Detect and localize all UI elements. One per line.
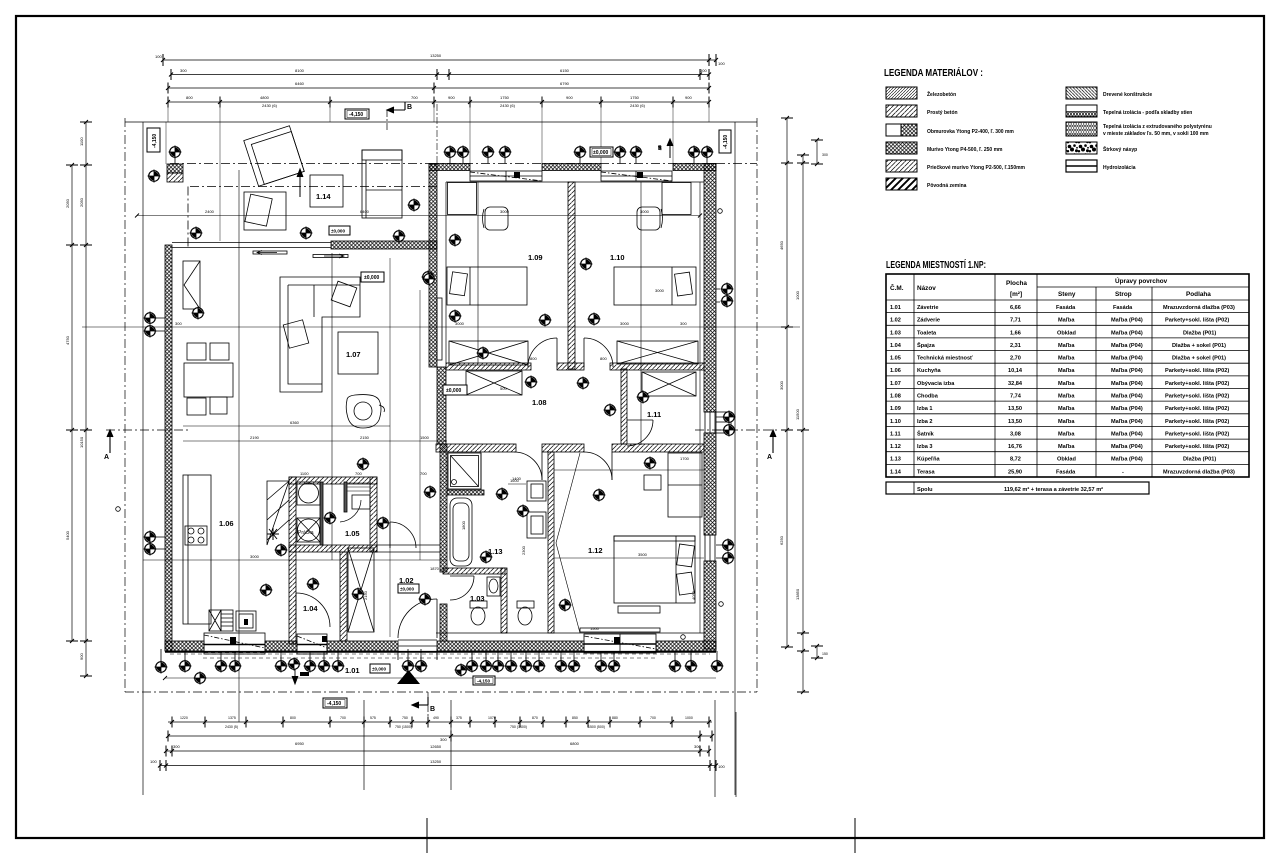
boiler symbol [267, 528, 279, 540]
svg-text:1.01: 1.01 [345, 666, 360, 675]
svg-text:700: 700 [340, 716, 346, 720]
terrace axis dashdot [190, 186, 437, 188]
svg-text:700: 700 [420, 471, 427, 476]
wall north seg3 [673, 164, 716, 171]
wall east seg1 [704, 164, 716, 413]
svg-text:300: 300 [175, 321, 182, 326]
small circle right [718, 209, 723, 214]
bottom chain line 2 [168, 735, 712, 737]
svg-text:900: 900 [448, 95, 455, 100]
svg-text:6,66: 6,66 [1010, 305, 1021, 311]
fold tick right [854, 818, 856, 853]
wall south seg2 [265, 641, 297, 651]
svg-text:Mrazuvzdorná dlažba (P03): Mrazuvzdorná dlažba (P03) [1163, 469, 1235, 475]
svg-text:Maľba (P04): Maľba (P04) [1111, 330, 1143, 336]
bed 1.10 [614, 267, 696, 305]
svg-text:Špajza: Špajza [917, 341, 936, 349]
svg-text:1.09: 1.09 [528, 253, 543, 262]
left chain line 1 [71, 165, 73, 641]
kitchen sink unit [209, 610, 221, 631]
swivel chair living [346, 395, 381, 428]
svg-text:700: 700 [650, 716, 656, 720]
svg-text:A: A [767, 454, 772, 461]
svg-text:850: 850 [572, 716, 578, 720]
svg-text:750 (1500): 750 (1500) [395, 725, 412, 729]
interior vertical x332 [331, 253, 333, 560]
markers rooms [422, 272, 435, 285]
south inner face line [436, 632, 704, 634]
window E2 [705, 412, 731, 433]
bedside 1.12 [644, 475, 661, 490]
svg-text:1.06: 1.06 [890, 368, 901, 374]
svg-text:Maľba: Maľba [1058, 431, 1075, 437]
interior vertical x239 [238, 170, 240, 722]
svg-text:-4,150: -4,150 [477, 679, 490, 684]
markers bath zone [423, 485, 436, 498]
svg-text:300: 300 [173, 744, 180, 749]
svg-text:LEGENDA MATERIÁLOV :: LEGENDA MATERIÁLOV : [884, 66, 983, 79]
svg-text:-4,150: -4,150 [723, 135, 729, 149]
svg-text:Maľba (P04): Maľba (P04) [1111, 394, 1143, 400]
svg-text:4650: 4650 [779, 240, 784, 250]
svg-text:3000: 3000 [655, 288, 665, 293]
svg-text:Strop: Strop [1115, 291, 1132, 298]
svg-text:15: 15 [657, 145, 662, 150]
svg-text:1870: 1870 [430, 566, 440, 571]
svg-text:-: - [1122, 469, 1124, 475]
svg-text:1.14: 1.14 [316, 192, 331, 201]
svg-text:1.14: 1.14 [890, 469, 902, 475]
bottom extension verticals [363, 700, 365, 790]
FURNITURE [183, 126, 702, 684]
right chain line 1 [786, 118, 788, 647]
left chain labels [65, 137, 84, 660]
svg-text:Parkety+sokl. lišta (P02): Parkety+sokl. lišta (P02) [1165, 431, 1229, 437]
svg-text:1.13: 1.13 [488, 547, 503, 556]
svg-text:2430 (6): 2430 (6) [500, 103, 516, 108]
svg-text:1100: 1100 [300, 471, 309, 476]
svg-text:2150: 2150 [363, 590, 368, 600]
svg-text:6950: 6950 [295, 741, 305, 746]
svg-text:300: 300 [694, 744, 701, 749]
svg-text:Maľba: Maľba [1058, 356, 1075, 362]
svg-text:Obmurovka Ytong P2-400, ľ. 300: Obmurovka Ytong P2-400, ľ. 300 mm [927, 129, 1014, 135]
west axis extension [165, 122, 167, 164]
corridor north wall seg2 [557, 363, 584, 370]
swatch tepelna izolacia xps [1066, 122, 1097, 136]
svg-text:Technická miestnosť: Technická miestnosť [917, 356, 973, 362]
svg-text:3000: 3000 [640, 209, 650, 214]
svg-text:750: 750 [402, 716, 408, 720]
svg-text:2190: 2190 [250, 435, 260, 440]
bathtub 1.13 [450, 498, 472, 566]
svg-text:1.07: 1.07 [346, 350, 361, 359]
svg-text:490: 490 [433, 716, 439, 720]
svg-text:1750: 1750 [500, 95, 510, 100]
svg-text:Murivo Ytong P4-500, ľ. 250 mm: Murivo Ytong P4-500, ľ. 250 mm [927, 147, 1003, 153]
svg-text:13250: 13250 [430, 53, 442, 58]
svg-text:1000: 1000 [795, 290, 800, 300]
axis line y560 [143, 559, 447, 561]
marker stems [156, 158, 723, 672]
svg-text:1220: 1220 [180, 716, 188, 720]
svg-text:11500: 11500 [795, 408, 800, 420]
svg-text:375: 375 [456, 716, 462, 720]
svg-text:25,90: 25,90 [1008, 469, 1022, 475]
svg-text:1750: 1750 [630, 95, 640, 100]
interior dim labels [175, 209, 696, 631]
svg-text:Terasa: Terasa [917, 469, 936, 475]
closet X 1.10 [617, 341, 698, 364]
swatch strkovy nasyp [1066, 142, 1097, 154]
door arc 1.13 [514, 452, 542, 480]
svg-text:-4,150: -4,150 [327, 701, 341, 707]
kitchen cabinet [236, 611, 256, 631]
window S3 big [580, 628, 660, 653]
svg-text:700: 700 [411, 95, 418, 100]
svg-text:Šatník: Šatník [917, 429, 935, 437]
svg-text:13,50: 13,50 [1008, 406, 1022, 412]
svg-text:1500: 1500 [590, 626, 600, 631]
markers kitchen zone [274, 543, 287, 556]
interior vertical x390 [389, 258, 391, 637]
door arc 1.11 [627, 420, 653, 446]
fold tick left [426, 818, 428, 853]
LEGEND-MATERIALS [884, 66, 1212, 190]
north arrow terrace [297, 169, 303, 197]
svg-text:1.11: 1.11 [890, 431, 901, 437]
pantry inner wall [320, 482, 323, 545]
door arc 1.10 [584, 338, 613, 367]
svg-text:6400: 6400 [360, 209, 370, 214]
door arc hall [390, 522, 416, 548]
wall east seg3 [704, 433, 716, 535]
wall south seg4 [437, 641, 584, 651]
plot boundary dashdot left [124, 118, 126, 692]
svg-text:Štrkový násyp: Štrkový násyp [1103, 145, 1137, 153]
pillow 1.09 [450, 272, 468, 296]
dining chair 4 [210, 397, 227, 414]
swatch obmurovka [886, 124, 901, 136]
door arc 1.12 [584, 452, 612, 480]
svg-text:Parkety+sokl. lišta (P02): Parkety+sokl. lišta (P02) [1165, 406, 1229, 412]
svg-text:Plocha: Plocha [1006, 280, 1027, 287]
pillow 1.10 [675, 272, 693, 296]
level box living2 [361, 272, 384, 282]
svg-text:Dlažba + sokel (P01): Dlažba + sokel (P01) [1172, 356, 1226, 362]
living rug box [338, 332, 378, 374]
top chain line 2 [171, 74, 709, 76]
svg-text:150: 150 [822, 652, 828, 656]
svg-text:2150: 2150 [360, 435, 370, 440]
wall south seg3 [327, 641, 398, 651]
svg-text:3500: 3500 [638, 552, 648, 557]
svg-text:Mrazuvzdorná dlažba (P03): Mrazuvzdorná dlažba (P03) [1163, 305, 1235, 311]
svg-text:Fasáda: Fasáda [1113, 305, 1133, 311]
interior vertical x478 [477, 182, 479, 363]
svg-text:3000: 3000 [779, 380, 784, 390]
svg-text:Parkety+sokl. lišta (P02): Parkety+sokl. lišta (P02) [1165, 381, 1229, 387]
svg-text:2430 (5): 2430 (5) [225, 725, 238, 729]
wall north seg2 [542, 164, 601, 171]
dining chair 1 [187, 343, 206, 360]
wall 1.03 east [501, 568, 507, 633]
swatch zelezobeton [886, 87, 917, 99]
bottom chain labels [150, 716, 725, 769]
extension lines top chain [168, 104, 709, 241]
svg-text:13250: 13250 [430, 759, 442, 764]
wall west [165, 245, 172, 651]
section A line left [106, 429, 190, 431]
svg-text:6800: 6800 [570, 741, 580, 746]
closet X corridor [466, 371, 522, 395]
L-sofa living [280, 277, 360, 392]
svg-text:13850: 13850 [795, 588, 800, 600]
svg-text:Maľba (P04): Maľba (P04) [1111, 343, 1143, 349]
pantry wall bottom [289, 545, 377, 552]
svg-text:LEGENDA MIESTNOSTÍ 1.NP:: LEGENDA MIESTNOSTÍ 1.NP: [886, 258, 986, 271]
svg-text:1.10: 1.10 [890, 419, 901, 425]
wall 1.04-1.02 [340, 552, 347, 641]
top chain line 3 [168, 87, 709, 89]
svg-text:1.03: 1.03 [890, 330, 901, 336]
svg-text:880: 880 [612, 716, 618, 720]
dryer 1.05 [297, 518, 320, 542]
svg-text:Maľba: Maľba [1058, 394, 1075, 400]
porch slab line [165, 677, 716, 679]
pantry shelves [267, 481, 289, 545]
interior vertical x420 [419, 290, 421, 560]
window S2 [297, 634, 327, 654]
window N1 [470, 171, 542, 181]
svg-text:2430 (6): 2430 (6) [262, 103, 278, 108]
ROOM-TABLE [886, 258, 1249, 494]
svg-text:Obklad: Obklad [1057, 330, 1077, 336]
svg-text:100: 100 [718, 764, 725, 769]
top chain labels [155, 53, 725, 108]
level box wing [590, 147, 613, 157]
svg-text:1.04: 1.04 [890, 343, 902, 349]
svg-text:±0,000: ±0,000 [372, 667, 386, 672]
svg-text:Izba 3: Izba 3 [917, 444, 933, 450]
section B marker bottom [412, 697, 428, 708]
bed 1.09 [447, 267, 527, 305]
svg-text:Maľba (P04): Maľba (P04) [1111, 381, 1143, 387]
closet X 1.11 [642, 372, 696, 396]
swatch murivo [886, 142, 917, 154]
small circle left [116, 507, 121, 512]
bench 1.12 [618, 606, 660, 613]
south wall outer thick line [165, 651, 716, 653]
markers right wall [720, 282, 733, 295]
svg-text:10,14: 10,14 [1008, 368, 1023, 374]
section A marker right [770, 430, 776, 453]
svg-text:4800: 4800 [260, 95, 270, 100]
svg-text:Maľba (P04): Maľba (P04) [1111, 419, 1143, 425]
svg-text:Parkety+sokl. lišta (P02): Parkety+sokl. lišta (P02) [1165, 318, 1229, 324]
svg-text:1.09: 1.09 [890, 406, 901, 412]
window E3 [705, 535, 715, 561]
toilet 1.03 [470, 601, 487, 608]
wall 1.08-1.11 [621, 369, 627, 444]
swatch prieckove murivo [886, 160, 917, 172]
wall south seg1 [165, 641, 204, 651]
dining chair 3 [187, 398, 206, 415]
svg-text:800: 800 [600, 356, 607, 361]
table rows [890, 305, 1235, 493]
svg-text:800: 800 [530, 356, 537, 361]
svg-text:Závetrie: Závetrie [917, 305, 938, 311]
corridor south wall seg1 [436, 444, 516, 452]
kitchen-hall wall lines [377, 545, 440, 552]
right chain labels [779, 240, 800, 600]
svg-text:Maľba: Maľba [1058, 368, 1075, 374]
bottom chain line 4 [160, 765, 716, 767]
level box terrace [443, 385, 467, 395]
pantry wall top [289, 477, 377, 484]
svg-text:1070: 1070 [488, 716, 496, 720]
svg-text:Č.M.: Č.M. [890, 283, 904, 292]
svg-text:Maľba (P04): Maľba (P04) [1111, 368, 1143, 374]
svg-text:Maľba: Maľba [1058, 343, 1075, 349]
svg-text:Drevené konštrukcie: Drevené konštrukcie [1103, 92, 1152, 98]
wall wing west [429, 164, 437, 367]
chair 1.10 [637, 207, 660, 230]
markers terrace-living [189, 226, 202, 239]
svg-text:12650: 12650 [430, 744, 442, 749]
kitchen stove [185, 526, 207, 545]
svg-text:Hydroizolácia: Hydroizolácia [1103, 165, 1136, 171]
corridor south wall seg2 [542, 444, 584, 452]
axis line y215 [137, 215, 700, 217]
level box 1.01 [370, 664, 390, 673]
svg-text:6150: 6150 [560, 68, 570, 73]
level box hall [398, 584, 419, 593]
plot boundary dashdot right [756, 118, 758, 692]
svg-text:4750: 4750 [65, 335, 70, 345]
wardrobe X 1.02 [348, 548, 374, 632]
svg-text:6360: 6360 [290, 420, 300, 425]
wall 1.02-1.13 [440, 444, 447, 572]
swatch prosty beton [886, 105, 917, 117]
svg-text:Obývacia izba: Obývacia izba [917, 381, 955, 387]
svg-text:-4,150: -4,150 [349, 112, 363, 118]
svg-text:800: 800 [290, 716, 296, 720]
top chain line 4 [168, 101, 709, 103]
shower 1.13 [448, 453, 481, 489]
svg-text:900: 900 [685, 95, 692, 100]
svg-text:±0,000: ±0,000 [331, 229, 345, 234]
svg-text:Dlažba (P01): Dlažba (P01) [1183, 457, 1216, 463]
wardrobe 1.12 [668, 453, 702, 517]
svg-text:±0,000: ±0,000 [446, 388, 461, 394]
swatch drevene konstrukcie [1066, 87, 1097, 99]
svg-text:Steny: Steny [1058, 291, 1076, 298]
svg-text:1.05: 1.05 [890, 356, 901, 362]
svg-text:Tepelná izolácia z extrudované: Tepelná izolácia z extrudovaného polysty… [1103, 124, 1212, 130]
terrace corner pillar [167, 164, 183, 173]
PLAN-WALLS [82, 164, 800, 723]
svg-text:±0,000: ±0,000 [364, 275, 379, 281]
svg-text:Maľba: Maľba [1058, 419, 1075, 425]
svg-text:16,76: 16,76 [1008, 444, 1022, 450]
kitchen counter [183, 475, 211, 624]
svg-text:2430 (6): 2430 (6) [630, 103, 646, 108]
plot boundary dashdot bottom [125, 691, 757, 693]
niche 1.05 [352, 495, 370, 509]
DIM-CHAINS [65, 53, 828, 797]
svg-text:1.04: 1.04 [303, 604, 318, 613]
svg-text:2300: 2300 [521, 545, 526, 555]
sofa pillow 1 [331, 281, 357, 307]
svg-text:300: 300 [440, 737, 447, 742]
svg-text:B: B [407, 104, 412, 111]
svg-text:Maľba (P04): Maľba (P04) [1111, 406, 1143, 412]
svg-text:v mieste základov ľs. 50 mm, v: v mieste základov ľs. 50 mm, v sokli 100… [1103, 131, 1209, 137]
door arc 1.04 [296, 593, 330, 627]
svg-text:1.12: 1.12 [588, 546, 603, 555]
svg-text:8100: 8100 [295, 68, 305, 73]
svg-text:100: 100 [718, 61, 725, 66]
svg-text:±0,000: ±0,000 [400, 587, 414, 592]
svg-text:3,08: 3,08 [1010, 431, 1021, 437]
svg-text:Pôvodná zemina: Pôvodná zemina [927, 183, 967, 189]
svg-text:1800: 1800 [461, 520, 466, 530]
svg-text:300: 300 [680, 321, 687, 326]
svg-text:5400: 5400 [65, 530, 70, 540]
coat closet living [183, 261, 200, 309]
svg-text:2050: 2050 [65, 198, 70, 208]
svg-text:3000: 3000 [250, 554, 260, 559]
interior lines 1.12 [554, 557, 704, 559]
right chain line 2 [802, 155, 804, 692]
svg-text:8,72: 8,72 [1010, 457, 1021, 463]
svg-text:-4,150: -4,150 [152, 134, 158, 148]
svg-text:870: 870 [532, 716, 538, 720]
svg-text:Toaleta: Toaleta [917, 330, 937, 336]
svg-text:300: 300 [180, 68, 187, 73]
MARKERS [116, 145, 736, 684]
sliding door north [172, 243, 348, 259]
svg-text:Parkety+sokl. lišta (P02): Parkety+sokl. lišta (P02) [1165, 419, 1229, 425]
svg-text:10150: 10150 [79, 436, 84, 448]
markers bottom row [154, 660, 167, 673]
dining table [184, 363, 233, 397]
wall north living [331, 241, 437, 249]
svg-text:Priečkové murivo Ytong P2-500,: Priečkové murivo Ytong P2-500, ľ.150mm [927, 165, 1026, 171]
door arc 1.09 [528, 338, 557, 367]
axis line y327 [82, 326, 800, 328]
svg-text:Izba 1: Izba 1 [917, 406, 933, 412]
svg-text:100: 100 [150, 759, 157, 764]
svg-text:Maľba (P04): Maľba (P04) [1111, 431, 1143, 437]
svg-text:1.08: 1.08 [532, 398, 547, 407]
svg-text:1.12: 1.12 [890, 444, 901, 450]
svg-text:6250: 6250 [779, 535, 784, 545]
wall north seg1 [429, 164, 470, 171]
toilet 1.13 [517, 601, 534, 608]
corridor north wall seg1 [446, 363, 531, 370]
svg-text:Maľba (P04): Maľba (P04) [1111, 457, 1143, 463]
svg-text:3000: 3000 [620, 321, 630, 326]
svg-text:2,31: 2,31 [1010, 343, 1021, 349]
svg-text:Kuchyňa: Kuchyňa [917, 368, 942, 374]
pantry wall left [289, 477, 296, 644]
svg-text:1.02: 1.02 [890, 318, 901, 324]
sink2 1.13 [527, 512, 546, 538]
entry triangle [397, 670, 420, 684]
dining chair 2 [210, 343, 229, 360]
